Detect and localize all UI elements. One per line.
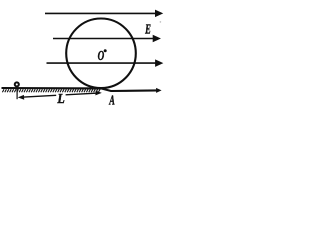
svg-text:E: E: [144, 22, 150, 37]
svg-text:A: A: [109, 93, 115, 108]
svg-text:L: L: [56, 91, 64, 106]
svg-text:O: O: [98, 49, 105, 64]
